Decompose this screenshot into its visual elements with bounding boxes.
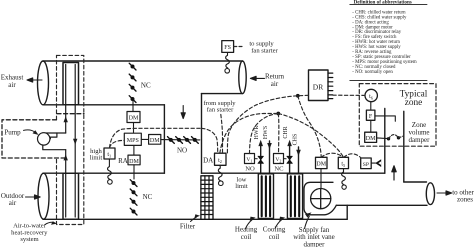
damper motor DM1 — [127, 112, 140, 123]
t1 sensor bulb — [108, 180, 113, 185]
filter — [201, 176, 213, 220]
SP probe symbol — [371, 159, 381, 167]
fan wheel circle with cross — [311, 189, 331, 209]
valve V2 body — [287, 156, 293, 163]
dashed t1 over MPS to downcomer wall — [110, 128, 202, 148]
outdoor air arrow — [26, 195, 41, 199]
heating coil — [258, 174, 273, 219]
link DM1 to exhaust damper — [132, 101, 134, 112]
exhaust duct left end ellipse — [38, 61, 49, 105]
mixing box right wall — [163, 105, 165, 173]
link DM zone to damper — [377, 137, 389, 140]
svg-text:t5: t5 — [341, 162, 345, 168]
supply duct right end ellipse — [426, 183, 434, 205]
supply duct top wall left segment — [43, 172, 164, 174]
svg-text:DA: DA — [203, 157, 213, 165]
svg-text:damper: damper — [409, 136, 431, 144]
dashed wall to t2 drop — [202, 128, 218, 153]
link DM1 to MPS — [133, 123, 135, 134]
svg-text:t2: t2 — [218, 158, 222, 164]
svg-text:zone: zone — [405, 98, 423, 108]
legend bottom rule — [350, 79, 427, 81]
heat-recovery label arrow — [45, 222, 54, 224]
svg-text:limit: limit — [90, 154, 103, 161]
svg-text:DR: DR — [313, 83, 323, 92]
pump P — [38, 133, 66, 150]
svg-text:CHR: CHR — [283, 126, 289, 138]
exhaust/return duct top wall — [43, 60, 243, 62]
HWR pipe — [260, 143, 262, 173]
link DM fan to inlet vane — [320, 169, 322, 189]
dashed hump t5 to SP — [344, 154, 362, 158]
svg-text:air: air — [8, 81, 16, 89]
svg-text:DM: DM — [129, 159, 139, 165]
valve V2 box — [274, 154, 284, 164]
svg-text:MPS: MPS — [127, 138, 139, 144]
exhaust-side coil — [63, 63, 79, 105]
HWS pipe — [269, 141, 271, 173]
svg-text:FS: FS — [224, 45, 231, 51]
t5 sensor bulb — [342, 185, 346, 189]
link MPS to DM3 — [141, 138, 148, 140]
link t6 to F — [370, 102, 372, 110]
svg-text:limit: limit — [235, 183, 248, 190]
svg-text:NO: NO — [177, 146, 187, 154]
svg-text:CHS: CHS — [292, 134, 298, 146]
damper motor DM3 — [149, 135, 161, 145]
zone damper blade dashed arc — [389, 135, 399, 139]
heating coil label arrow — [246, 220, 253, 229]
branch duct right wall — [403, 111, 405, 182]
dashed t2 to junction — [220, 114, 278, 154]
dashed t1 to MPS — [110, 140, 125, 147]
svg-text:coil: coil — [241, 233, 252, 241]
dashed DR to t2 — [227, 95, 308, 153]
water pipe riser (supply to exhaust coil) — [65, 65, 67, 218]
link DM3 to recirc damper — [161, 139, 200, 141]
heat-recovery dashed enclosure — [57, 55, 84, 224]
svg-text:DM: DM — [129, 116, 139, 122]
t1 sensor squiggle — [108, 159, 112, 179]
valve V1 box — [245, 154, 255, 164]
riser up arrow lower — [63, 154, 67, 160]
exhaust duct bottom wall — [43, 104, 164, 106]
junction node on DR line — [296, 94, 300, 98]
svg-text:zones: zones — [457, 195, 473, 203]
supply duct bottom wall after fan — [336, 204, 427, 206]
svg-text:coil: coil — [269, 233, 280, 241]
dashed hump DM to t5 — [321, 153, 343, 157]
controller t5 supply air — [338, 157, 348, 168]
dashed DR to t6 — [333, 94, 365, 96]
discriminator relay DR — [309, 70, 329, 101]
supply duct bottom wall — [43, 218, 347, 220]
svg-text:damper: damper — [304, 240, 326, 247]
branch duct up arrow — [392, 166, 396, 180]
V1 link — [255, 158, 258, 160]
svg-text:V1: V1 — [246, 157, 252, 163]
fan scroll housing — [304, 182, 336, 215]
outdoor damper NC hatches — [130, 180, 137, 215]
t5 sensor squiggle — [342, 169, 346, 185]
dashed fan starter drop to t2 — [221, 115, 223, 154]
filter label arrow — [191, 217, 197, 222]
branch duct left wall — [384, 109, 386, 174]
legend title rule — [350, 3, 427, 5]
legend items — [352, 10, 417, 74]
dashed FS to fan starter note — [234, 46, 244, 48]
static pressure controller SP — [361, 158, 372, 169]
t2 sensor bulb — [219, 181, 224, 186]
SECTION: ducts — [38, 61, 435, 219]
DR pins — [328, 73, 333, 99]
FS sensor bulb — [225, 69, 230, 74]
dashed junction to V1 — [250, 114, 279, 154]
svg-text:DM: DM — [150, 138, 160, 144]
F probe into branch duct — [375, 116, 395, 121]
dashed junction to t5 — [278, 114, 343, 157]
recirculation down arrow — [181, 106, 185, 119]
V2 link — [284, 158, 287, 160]
svg-text:NO: NO — [245, 166, 255, 173]
recirculation damper NO hatches — [168, 137, 199, 144]
duct step at fan outlet — [346, 205, 348, 219]
svg-text:Pump: Pump — [4, 128, 21, 136]
svg-text:HWR: HWR — [254, 126, 260, 140]
pump label arrow — [24, 130, 36, 133]
link MPS to DM2 — [133, 145, 135, 155]
svg-text:t1: t1 — [107, 152, 111, 158]
svg-text:NC: NC — [274, 166, 284, 173]
fire safety switch FS — [222, 41, 234, 53]
controller t2 mixed air — [215, 153, 227, 165]
junction node on t2 control line — [276, 112, 280, 116]
to other zones arrow — [437, 191, 452, 195]
damper motor DM zone — [365, 132, 377, 142]
motor positioning system MPS — [124, 133, 141, 145]
recirculation downcomer right wall — [201, 94, 203, 174]
exhaust air arrow — [27, 78, 42, 82]
cooling coil — [287, 174, 302, 219]
riser up arrow upper — [63, 116, 67, 122]
svg-text:SP: SP — [363, 162, 369, 168]
return duct right end ellipse — [239, 61, 246, 94]
svg-text:- NO: normally open: - NO: normally open — [352, 70, 393, 75]
outdoor duct left end ellipse — [38, 173, 49, 219]
relay F — [366, 110, 375, 120]
zone thermostat t6 — [365, 89, 377, 101]
link F to DM zone — [370, 120, 372, 132]
svg-text:HWS: HWS — [263, 126, 269, 139]
svg-text:fan starter: fan starter — [251, 48, 278, 55]
CHS pipe — [298, 147, 300, 173]
svg-text:air: air — [271, 80, 279, 88]
svg-text:NC: NC — [143, 193, 153, 201]
zone damper pivot dots — [387, 137, 390, 140]
svg-text:air: air — [9, 199, 17, 207]
svg-text:V2: V2 — [275, 157, 281, 163]
svg-text:fan starter: fan starter — [207, 107, 234, 114]
return air arrow — [250, 76, 264, 80]
dashed DR junction to DM fan — [298, 96, 321, 158]
svg-text:Filter: Filter — [180, 222, 196, 230]
valve V1 body — [258, 156, 264, 163]
water return pipe — [74, 65, 76, 218]
svg-text:DM: DM — [316, 162, 326, 168]
exhaust damper NC hatches — [129, 63, 136, 102]
svg-text:NC: NC — [141, 81, 151, 89]
svg-text:system: system — [20, 236, 39, 243]
thermostat t1 high limit — [104, 148, 115, 159]
FS sensor squiggle — [226, 53, 230, 69]
dashed junction to V2 — [277, 114, 280, 154]
cooling coil label arrow — [275, 220, 282, 229]
t2 sensor squiggle — [218, 165, 222, 181]
damper motor DM fan inlet vane — [316, 157, 328, 168]
CHR pipe — [289, 143, 291, 173]
svg-text:DM: DM — [366, 136, 376, 142]
supply duct top wall after branch — [404, 181, 427, 183]
damper motor DM2 — [128, 155, 140, 165]
outdoor-side coil — [63, 173, 79, 219]
typical zone dashed box — [359, 84, 436, 147]
return duct bottom wall — [202, 93, 243, 95]
return pipe down arrow — [73, 139, 77, 145]
pump dashed enclosure — [2, 114, 84, 158]
link DM2 to outdoor damper — [133, 165, 135, 179]
supply fan label arrow — [305, 216, 310, 228]
supply duct top wall right segment — [202, 172, 385, 174]
svg-text:RA: RA — [118, 157, 128, 165]
